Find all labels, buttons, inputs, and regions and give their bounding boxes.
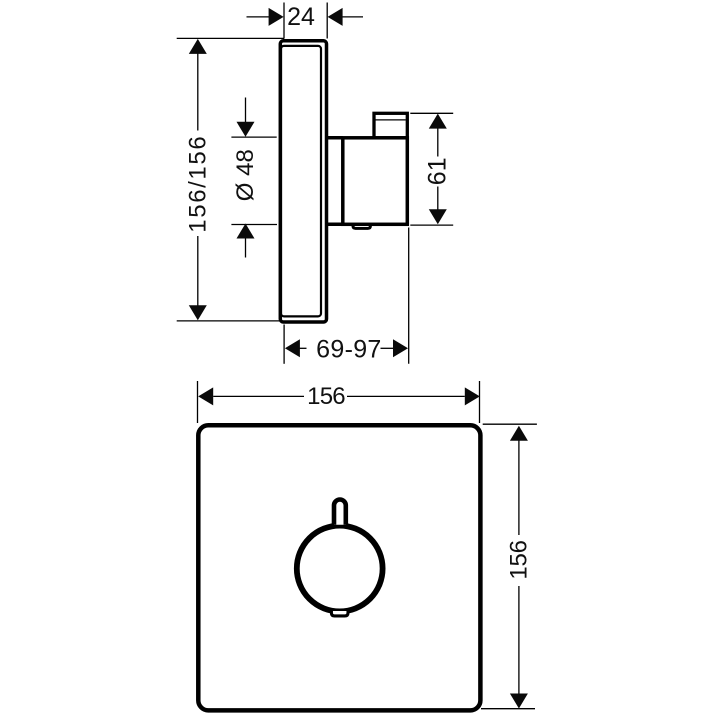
svg-text:156: 156: [505, 540, 532, 579]
svg-text:69-97: 69-97: [316, 335, 381, 363]
svg-text:61: 61: [424, 157, 452, 185]
svg-text:Ø 48: Ø 48: [232, 149, 259, 201]
svg-text:156/156: 156/156: [184, 135, 211, 233]
svg-text:156: 156: [307, 383, 345, 410]
svg-text:24: 24: [287, 3, 315, 31]
